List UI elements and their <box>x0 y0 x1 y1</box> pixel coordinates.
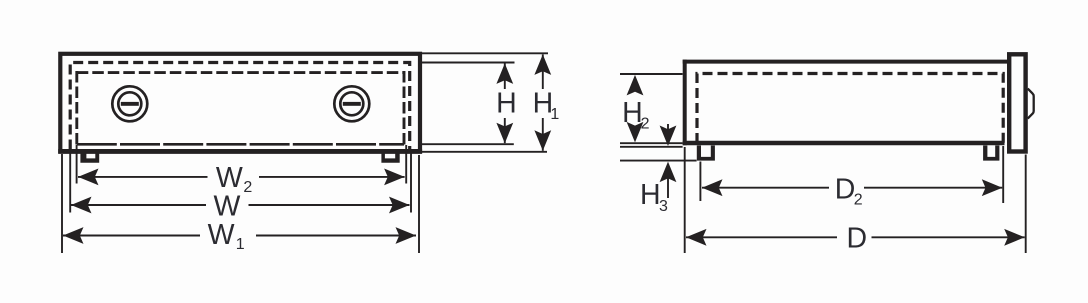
front panel top edge <box>77 71 404 74</box>
extension line W right <box>410 152 412 213</box>
svg-text:W: W <box>208 219 235 251</box>
front panel right edge <box>403 71 406 146</box>
extension line H1 bottom <box>420 151 547 153</box>
case left edge side view <box>683 60 687 146</box>
extension line D right <box>1025 155 1027 254</box>
extension line foot bottom <box>620 160 697 162</box>
svg-text:D: D <box>847 223 868 255</box>
left foot front view <box>80 154 99 163</box>
case bottom edge reinforcement front view <box>58 149 422 154</box>
svg-text:2: 2 <box>243 179 252 196</box>
case top edge side view <box>683 60 1007 64</box>
lock fastener left: slot <box>121 102 139 106</box>
extension line H2 bottom <box>620 142 683 144</box>
dimension line H <box>504 63 506 89</box>
dimension line W <box>71 204 206 206</box>
extension line H bottom <box>420 143 514 145</box>
extension line W1 right <box>418 155 420 253</box>
front panel side view <box>1009 54 1025 151</box>
svg-text:2: 2 <box>641 115 650 132</box>
dimension H2 <box>627 75 644 96</box>
svg-text:1: 1 <box>550 106 559 123</box>
right foot side view <box>983 146 999 161</box>
svg-text:1: 1 <box>236 236 245 253</box>
svg-text:H: H <box>496 88 517 120</box>
extension line H1 top <box>420 52 548 54</box>
right foot front view <box>381 154 399 163</box>
svg-text:3: 3 <box>659 198 668 215</box>
lock fastener right: inner ring <box>340 92 363 115</box>
extension line D left <box>684 147 686 253</box>
extension line foot top <box>620 146 683 148</box>
svg-text:W: W <box>216 162 243 194</box>
lock fastener right: slot <box>343 102 361 106</box>
extension line D2 right <box>1002 146 1004 203</box>
lock fastener left: inner ring <box>118 92 141 115</box>
extension line W2 right <box>405 145 407 184</box>
svg-text:W: W <box>214 190 241 222</box>
lock fastener right: outer ring <box>334 86 369 121</box>
hidden edge dashed rect side view <box>697 74 1003 144</box>
dimension line W2 <box>78 176 208 178</box>
case bottom edge side view <box>683 141 1005 145</box>
svg-text:H: H <box>622 97 643 129</box>
svg-text:2: 2 <box>854 191 863 208</box>
front panel bottom edge <box>77 143 404 146</box>
extension line H2 top <box>620 73 683 75</box>
dimension line H1 <box>542 54 544 89</box>
case outline front view <box>60 54 420 152</box>
extension line W1 left <box>61 154 63 253</box>
left foot side view <box>697 146 715 161</box>
svg-text:D: D <box>835 174 856 206</box>
extension line W2 left <box>76 145 78 184</box>
dimension line D <box>686 236 837 238</box>
front panel left edge <box>75 71 78 146</box>
knob bump on panel <box>1028 89 1034 119</box>
extension line D2 left <box>699 162 701 202</box>
case top edge continuation through panel <box>1012 62 1024 65</box>
dimension line W1 <box>63 235 200 237</box>
dimension H3 <box>667 124 669 132</box>
hidden edge dashed rectangle <box>70 63 410 150</box>
extension line W left <box>69 152 71 213</box>
extension line H top <box>420 62 515 64</box>
lock fastener left: outer ring <box>112 86 147 121</box>
svg-text:H: H <box>640 179 661 211</box>
dimension line D2 <box>702 187 829 189</box>
